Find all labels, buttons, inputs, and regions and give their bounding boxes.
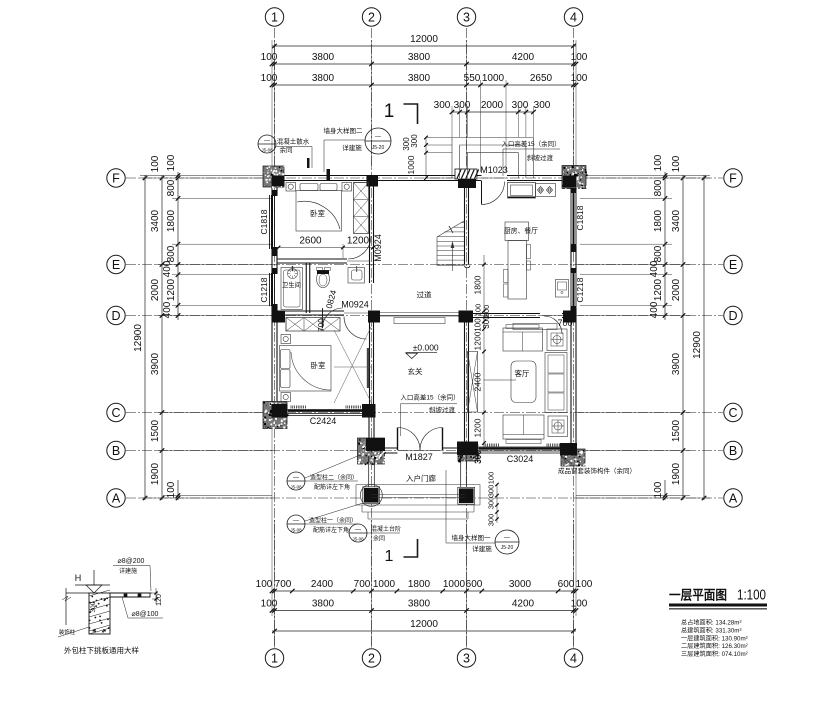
svg-text:1800: 1800 — [166, 209, 177, 232]
svg-text:2000: 2000 — [150, 278, 161, 301]
door M0824 bathroom — [322, 308, 324, 328]
grid bubble C right — [724, 403, 742, 421]
svg-text:过道: 过道 — [417, 290, 432, 300]
svg-text:2: 2 — [368, 11, 375, 25]
svg-text:C2424: C2424 — [310, 416, 337, 426]
svg-text:1800: 1800 — [408, 579, 431, 590]
porch step dims right — [496, 485, 498, 524]
svg-text:400: 400 — [649, 301, 660, 318]
svg-text:700: 700 — [354, 579, 371, 590]
svg-text:100: 100 — [571, 73, 588, 84]
leader from C3024 to trim label — [560, 455, 572, 464]
wall col2 segment (wash area) — [369, 261, 371, 283]
pier east above C1218 — [571, 268, 577, 273]
door living/kitchen 700 — [544, 316, 562, 334]
svg-text:300: 300 — [454, 100, 471, 111]
column grid3/F area (M1023 side) — [458, 177, 476, 188]
svg-text:100: 100 — [166, 154, 177, 171]
bedroom2 east wall shelf band — [367, 348, 369, 388]
grid axis line 4 (vertical) — [573, 28, 575, 648]
living room long sofa right — [545, 353, 567, 413]
svg-text:300: 300 — [487, 514, 496, 527]
svg-text:3400: 3400 — [150, 209, 161, 232]
svg-text:一层建筑面积: 130.90m²: 一层建筑面积: 130.90m² — [681, 634, 748, 642]
grid bubble E right — [724, 255, 742, 273]
svg-text:详建施: 详建施 — [119, 567, 137, 575]
column grid1/D — [272, 311, 286, 323]
kitchen counter + sink — [508, 183, 536, 199]
pier west below C1218 — [272, 304, 278, 312]
svg-text:1000: 1000 — [373, 579, 396, 590]
grid bubble B left — [107, 441, 125, 459]
svg-text:1: 1 — [271, 11, 278, 25]
svg-text:J5-20: J5-20 — [501, 545, 514, 551]
svg-text:300: 300 — [487, 485, 496, 498]
top dim extension lines — [274, 40, 276, 168]
svg-text:800: 800 — [653, 245, 664, 262]
wall interior col2 (bedroom1 east) — [369, 178, 371, 261]
wall west foyer (col2, C to B) — [368, 413, 370, 451]
detail dim 120 — [152, 592, 158, 594]
svg-text:300: 300 — [410, 134, 419, 148]
svg-text:三层建筑面积: 074.10m²: 三层建筑面积: 074.10m² — [681, 650, 748, 658]
bed bedroom1 — [296, 191, 342, 232]
wall exterior west col1 (C1218 to C) — [271, 306, 273, 413]
door M0924 bedroom1 — [348, 236, 371, 259]
svg-text:墙身大样图二: 墙身大样图二 — [324, 126, 364, 135]
decorative column top-right corner — [562, 166, 588, 190]
grid bubble 1 top — [265, 8, 283, 26]
svg-text:600: 600 — [558, 579, 575, 590]
svg-text:300: 300 — [474, 450, 483, 464]
svg-text:卫生间: 卫生间 — [282, 280, 301, 289]
svg-text:100: 100 — [261, 52, 278, 63]
svg-text:800: 800 — [166, 179, 177, 196]
svg-text:M1023: M1023 — [480, 165, 508, 175]
svg-text:C1218: C1218 — [259, 277, 269, 302]
grid bubble 4 top — [564, 8, 582, 26]
column grid1/C — [272, 404, 288, 418]
svg-text:C: C — [728, 406, 737, 420]
grid bubble 3 top — [457, 8, 475, 26]
svg-text:C: C — [111, 406, 120, 420]
svg-text:1800: 1800 — [473, 275, 483, 294]
detail bubble concrete apron — [258, 135, 276, 153]
sill line M1827 opening — [398, 450, 443, 452]
svg-text:1200: 1200 — [473, 331, 483, 350]
canopy side dim — [425, 138, 427, 179]
svg-text:B: B — [729, 444, 737, 458]
detail bubble steps — [349, 524, 367, 542]
svg-text:H: H — [75, 573, 82, 583]
svg-text:—: — — [504, 536, 510, 542]
column grid2/C — [362, 404, 376, 418]
svg-text:F: F — [112, 172, 120, 186]
bathroom toilet — [317, 270, 330, 288]
grid bubble 2 bottom — [362, 649, 380, 667]
grid axis line 3 (vertical) — [466, 28, 468, 648]
svg-text:C3024: C3024 — [507, 454, 534, 464]
svg-text:3000: 3000 — [509, 579, 532, 590]
svg-text:2650: 2650 — [530, 73, 553, 84]
door M1023 (kitchen north) — [481, 181, 483, 205]
column grid2/D — [368, 311, 380, 323]
svg-text:C1218: C1218 — [575, 277, 585, 302]
svg-text:400: 400 — [162, 301, 173, 318]
svg-text:3800: 3800 — [312, 73, 335, 84]
svg-text:配筋详左下角: 配筋详左下角 — [314, 483, 350, 491]
svg-text:M1827: M1827 — [405, 452, 433, 462]
svg-text:300: 300 — [534, 100, 551, 111]
pier west above C1218 — [272, 268, 278, 274]
grid bubble B right — [724, 441, 742, 459]
svg-text:4: 4 — [570, 11, 577, 25]
svg-text:100: 100 — [256, 579, 273, 590]
grid bubble D left — [107, 306, 125, 324]
wall exterior east col4 (C1218 to B) — [570, 308, 572, 451]
svg-text:D: D — [111, 309, 120, 323]
window C1218 east (dining) — [570, 272, 572, 308]
svg-text:1900: 1900 — [671, 462, 682, 485]
svg-text:12000: 12000 — [410, 619, 438, 630]
dimension row top: 100/3800/3800/550/1000/2650/100 — [272, 84, 576, 86]
svg-text:总建筑面积: 331.30m²: 总建筑面积: 331.30m² — [681, 626, 742, 634]
kitchen stove — [536, 184, 556, 197]
dim col left: 100/800/1800/800/400/1200/400 + 100 — [177, 172, 179, 320]
sill line M0924 bedroom1 — [347, 260, 369, 262]
grid bubble 4 bottom — [564, 649, 582, 667]
svg-text:300: 300 — [487, 497, 496, 510]
window C1818 west (bedroom1) — [269, 195, 271, 249]
left dim extension lines — [140, 177, 272, 179]
svg-text:墙身大样图一: 墙身大样图一 — [452, 533, 492, 542]
dimension row bottom: detail row — [272, 590, 576, 592]
svg-text:配筋详左下角: 配筋详左下角 — [313, 526, 349, 534]
svg-text:1: 1 — [385, 548, 394, 565]
dining counter bottom right — [556, 280, 569, 298]
svg-text:3800: 3800 — [408, 73, 431, 84]
wall south foyer row B (left of M1827) — [372, 447, 398, 449]
svg-text:客厅: 客厅 — [515, 368, 530, 378]
svg-text:600: 600 — [466, 579, 483, 590]
dim col right: 3400/2000/3900/1500/1900 — [682, 175, 684, 500]
wall bath east partition — [305, 263, 307, 313]
bathroom shower head — [288, 269, 298, 279]
svg-text:1:100: 1:100 — [737, 588, 766, 604]
svg-text:700: 700 — [275, 579, 292, 590]
grid axis line E (horizontal) — [126, 264, 723, 266]
svg-text:2400: 2400 — [311, 579, 334, 590]
wall col3 stair side — [464, 178, 466, 265]
svg-text:厨房、餐厅: 厨房、餐厅 — [504, 226, 538, 235]
stair wall end bullnose — [465, 266, 471, 268]
bedroom2 blanket curve — [291, 352, 331, 390]
svg-text:1200: 1200 — [473, 418, 483, 437]
wall bedroom1 south / bath north — [277, 258, 347, 260]
svg-text:斜坡过渡: 斜坡过渡 — [429, 405, 456, 414]
svg-text:100: 100 — [576, 579, 593, 590]
svg-text:余同: 余同 — [373, 535, 385, 543]
window C1818 east (kitchen) — [570, 190, 572, 246]
svg-text:A: A — [729, 492, 738, 506]
svg-text:3: 3 — [463, 11, 470, 25]
svg-text:二层建筑面积: 126.30m²: 二层建筑面积: 126.30m² — [681, 642, 748, 650]
dimension row top: 100/3800/3800/4200/100 — [272, 63, 576, 65]
pier east below C1218 — [571, 306, 577, 312]
wall row D bath south / bedroom2 north — [277, 310, 344, 312]
svg-text:1500: 1500 — [671, 419, 682, 442]
bed bedroom2 — [280, 346, 332, 392]
svg-text:4: 4 — [570, 652, 577, 666]
sill line M0924 bedroom2 — [344, 312, 368, 314]
svg-text:F: F — [729, 172, 737, 186]
svg-text:1: 1 — [384, 101, 395, 122]
column grid2/F — [367, 176, 379, 187]
svg-text:J5-08: J5-08 — [290, 485, 302, 490]
svg-text:详建施: 详建施 — [472, 544, 492, 553]
porch side walls — [368, 456, 370, 489]
grid bubble F right — [724, 169, 742, 187]
svg-text:—: — — [293, 475, 299, 481]
svg-text:斜坡过渡: 斜坡过渡 — [527, 153, 554, 162]
svg-text:120: 120 — [156, 594, 163, 606]
wall exterior east col4 (F to C1818) — [570, 178, 572, 190]
svg-text:3800: 3800 — [408, 52, 431, 63]
svg-text:J5-20: J5-20 — [372, 145, 385, 151]
door M1827 entrance (double) — [397, 428, 399, 451]
flue north wall — [327, 169, 331, 180]
svg-text:一层平面图: 一层平面图 — [669, 588, 727, 603]
svg-text:J5-08: J5-08 — [352, 537, 364, 542]
decorative column grid2/B — [358, 438, 386, 465]
wall exterior north row F (left of M1023) — [272, 175, 482, 177]
wall exterior west col1 (between windows) — [271, 249, 273, 273]
svg-text:2: 2 — [368, 652, 375, 666]
porch columns row A — [363, 487, 381, 505]
washbasin niche — [348, 268, 365, 284]
nightstands bedroom2 — [281, 335, 291, 344]
svg-text:卧室: 卧室 — [310, 208, 325, 218]
svg-text:造型柱二（余同）: 造型柱二（余同） — [310, 474, 358, 482]
pier east below F — [571, 188, 577, 193]
svg-text:2000: 2000 — [671, 278, 682, 301]
svg-text:100: 100 — [261, 599, 278, 610]
svg-text:12900: 12900 — [133, 324, 144, 352]
svg-text:100: 100 — [166, 481, 177, 498]
svg-text:800: 800 — [653, 179, 664, 196]
detail bubble wall detail1 — [495, 530, 519, 554]
svg-text:C1818: C1818 — [259, 209, 269, 234]
column grid3/B — [457, 442, 478, 456]
wall exterior north row F (right of M1023) — [507, 175, 576, 177]
grid axis line D (horizontal) — [126, 315, 723, 317]
svg-text:E: E — [112, 258, 120, 272]
C2424 sill teeth — [290, 406, 292, 409]
svg-text:总占地面积: 134.28m²: 总占地面积: 134.28m² — [681, 619, 742, 627]
svg-text:1200: 1200 — [653, 278, 664, 301]
sill line M1023 opening — [482, 177, 508, 179]
grid axis line B (horizontal) — [126, 450, 723, 452]
window C1218 west (bathroom) — [269, 273, 271, 306]
svg-text:C1818: C1818 — [575, 205, 585, 230]
svg-text:1000: 1000 — [443, 579, 466, 590]
svg-text:1200: 1200 — [347, 236, 370, 247]
svg-text:—: — — [375, 135, 381, 141]
sill line door 700 — [540, 315, 562, 317]
svg-text:1900: 1900 — [150, 462, 161, 485]
grid bubble F left — [107, 169, 125, 187]
grid axis line A (horizontal) — [126, 497, 723, 499]
svg-text:M0924: M0924 — [373, 234, 383, 262]
column grid3/D — [459, 311, 474, 323]
svg-text:100: 100 — [571, 52, 588, 63]
svg-text:1800: 1800 — [653, 209, 664, 232]
svg-text:—: — — [355, 527, 361, 533]
wall south bedroom2 row C (right stub) — [364, 409, 372, 411]
door M0924 bedroom2 — [344, 317, 367, 340]
side table top — [547, 329, 567, 351]
bathroom bathtub — [281, 268, 303, 310]
svg-text:100: 100 — [671, 155, 682, 172]
svg-text:3900: 3900 — [671, 352, 682, 375]
grid bubble A left — [107, 489, 125, 507]
svg-text:1000: 1000 — [406, 155, 416, 174]
dimension row top: 300/300/2000/300/300 (canopy) — [452, 111, 534, 113]
svg-text:1500: 1500 — [150, 419, 161, 442]
svg-text:J5-08: J5-08 — [290, 528, 302, 533]
dim col right: 800/1800/800/400/1200/400 + 100 — [664, 172, 666, 320]
kitchen inner dims — [483, 255, 485, 313]
svg-text:300: 300 — [512, 100, 529, 111]
svg-text:D: D — [728, 309, 737, 323]
svg-text:B: B — [112, 444, 120, 458]
dim col right: overall 12900 — [703, 175, 705, 500]
svg-text:300: 300 — [90, 601, 97, 612]
svg-text:100: 100 — [487, 472, 496, 485]
grid axis line F (horizontal) — [126, 177, 723, 179]
decorative column grid4/B corner — [561, 449, 587, 468]
svg-text:混凝土散水: 混凝土散水 — [277, 137, 310, 146]
svg-text:4200: 4200 — [512, 599, 535, 610]
svg-text:⌀8@200: ⌀8@200 — [118, 558, 145, 565]
svg-text:入口高差15（余同）: 入口高差15（余同） — [400, 393, 459, 402]
right dim extension lines — [576, 177, 710, 179]
svg-text:2600: 2600 — [299, 236, 322, 247]
decorative column grid3/B — [458, 445, 479, 462]
svg-text:混凝土台阶: 混凝土台阶 — [371, 525, 401, 533]
svg-text:12900: 12900 — [692, 331, 703, 359]
svg-text:⌀8@100: ⌀8@100 — [132, 611, 159, 618]
svg-text:100: 100 — [653, 154, 664, 171]
living room sofa bottom 2-seat — [503, 415, 544, 439]
dim col left: 3400/2000/3900/1500/1900 — [161, 175, 163, 500]
niche below wall D foyer — [394, 318, 445, 324]
svg-text:1000: 1000 — [482, 73, 505, 84]
svg-text:外包柱下挑板通用大样: 外包柱下挑板通用大样 — [64, 645, 139, 655]
hatched canopy pier above M1023 — [455, 169, 479, 179]
svg-text:3800: 3800 — [312, 599, 335, 610]
window C3024 south (living) — [479, 446, 565, 448]
decorative column top-left corner — [263, 166, 285, 188]
dim col left: overall 12900 — [144, 175, 146, 500]
detail bubble column1 — [287, 515, 305, 533]
svg-text:—: — — [293, 518, 299, 524]
grid bubble C left — [107, 403, 125, 421]
wall col2 bedroom2 east — [369, 316, 371, 413]
svg-text:700: 700 — [557, 318, 572, 328]
grid axis line 2 (vertical) — [371, 28, 373, 648]
wall exterior west col1 (F to C1818) — [271, 178, 273, 195]
wardrobe bedroom1 (X-hatch) — [354, 183, 369, 234]
living room side dims — [483, 316, 485, 445]
nightstands bedroom1 — [286, 183, 296, 192]
svg-text:3800: 3800 — [312, 52, 335, 63]
svg-text:E: E — [729, 258, 737, 272]
detail drawing: cantilever slab under wrapped column — [62, 570, 152, 634]
column grid4/B — [560, 443, 577, 456]
stairs — [461, 222, 464, 224]
C3024 sill teeth — [483, 444, 485, 447]
svg-text:卧室: 卧室 — [311, 360, 326, 370]
stairs up arrow — [452, 244, 454, 271]
wall south foyer row B (right of M1827) — [443, 447, 467, 449]
wall row D living north (left part) — [467, 313, 541, 315]
grid axis line C (horizontal) — [126, 412, 723, 414]
grid axis line 1 (vertical) — [274, 28, 276, 648]
svg-text:3400: 3400 — [671, 209, 682, 232]
svg-text:±0.000: ±0.000 — [413, 343, 439, 353]
wall exterior east col4 (between windows) — [570, 246, 572, 272]
TV wall / cabinet (x-hatch) — [468, 352, 478, 413]
dimension row bottom: 100/3800/3800/4200/100 — [272, 610, 576, 612]
svg-text:入口高差15（余同）: 入口高差15（余同） — [501, 139, 560, 148]
foyer diagonal marks — [334, 325, 372, 404]
right bottom 100 dim — [664, 480, 666, 500]
stair break tick — [449, 226, 453, 233]
svg-text:玄关: 玄关 — [408, 366, 423, 376]
svg-text:100: 100 — [150, 155, 161, 172]
living room sofa top 2-seat — [503, 328, 543, 351]
decorative column grid1/C corner — [263, 402, 289, 430]
bottom dim extension lines — [274, 520, 276, 648]
svg-text:3: 3 — [463, 652, 470, 666]
svg-text:J5-08: J5-08 — [261, 148, 273, 153]
svg-text:M0924: M0924 — [341, 300, 369, 310]
svg-text:100: 100 — [571, 599, 588, 610]
svg-text:100: 100 — [653, 481, 664, 498]
svg-text:800: 800 — [166, 245, 177, 262]
wall col3 foyer/living divider — [464, 316, 466, 451]
grid bubble 1 bottom — [265, 649, 283, 667]
side table bottom — [548, 416, 568, 437]
grid bubble A right — [724, 489, 742, 507]
svg-text:入户门廊: 入户门廊 — [406, 473, 436, 483]
svg-text:700: 700 — [317, 318, 326, 332]
pier west between windows — [272, 247, 278, 256]
kitchen island — [505, 222, 529, 241]
svg-text:A: A — [112, 492, 121, 506]
wall row D living north (right part) — [562, 313, 574, 315]
porch slab + steps — [356, 484, 480, 486]
closet bedroom2 top (X-hatch) — [286, 318, 340, 332]
svg-text:2000: 2000 — [481, 100, 504, 111]
svg-text:2400: 2400 — [473, 372, 483, 391]
svg-text:1: 1 — [271, 652, 278, 666]
pier east mid — [571, 244, 577, 252]
svg-text:3900: 3900 — [150, 352, 161, 375]
small shelf above toilet — [317, 268, 323, 271]
dimension row bottom: overall 12000 — [272, 630, 576, 632]
